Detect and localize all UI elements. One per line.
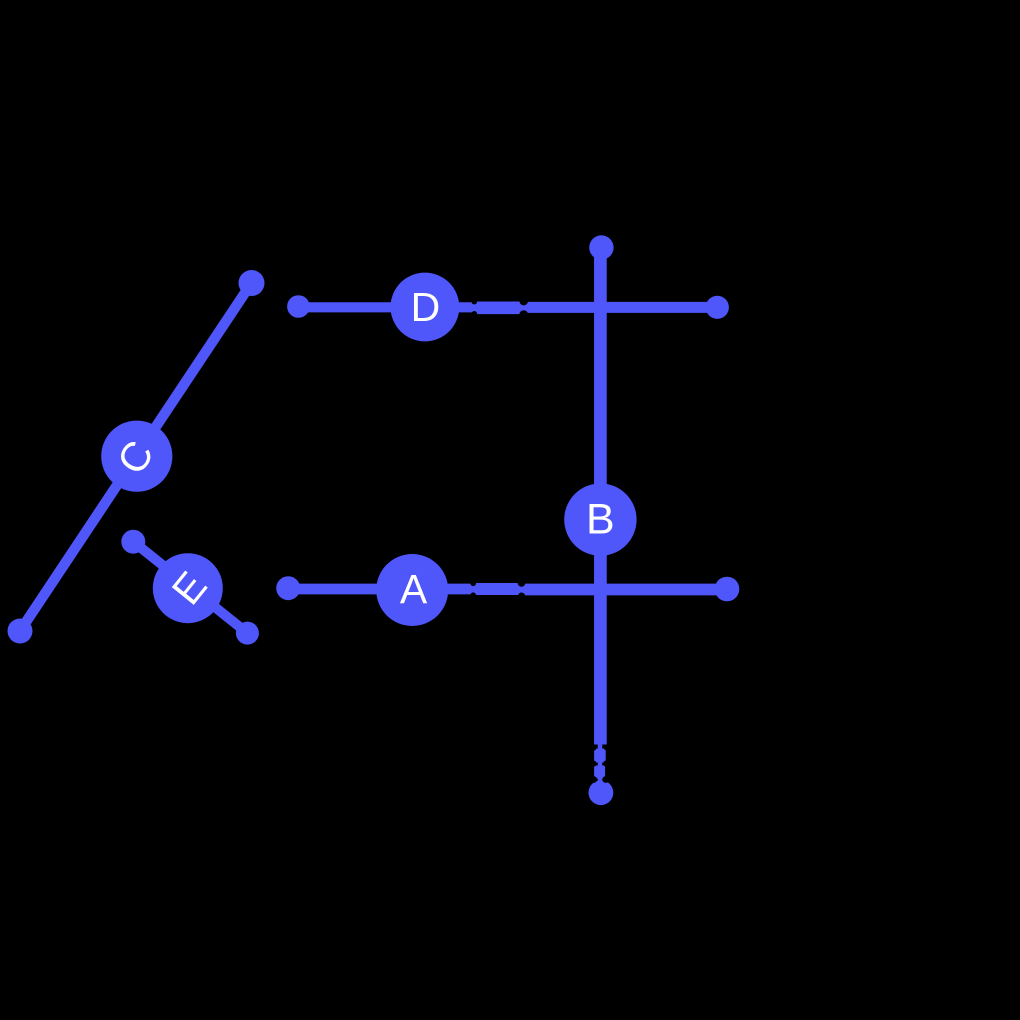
wire B bead 2 <box>594 766 605 779</box>
joint notch D2 <box>520 297 528 305</box>
svg-text:B: B <box>586 495 615 543</box>
joint notch B3 <box>590 776 597 783</box>
label circle D <box>391 273 460 342</box>
joint notch B1 <box>590 744 596 750</box>
svg-text:D: D <box>411 284 441 330</box>
wire E main segment <box>133 542 247 633</box>
wire A right segment <box>525 584 727 595</box>
wire B bead 1 <box>594 749 606 763</box>
road C <box>8 270 265 644</box>
wire B thin neck <box>598 744 603 782</box>
road B <box>564 235 636 805</box>
node D end dot <box>706 296 729 319</box>
wire D right segment <box>527 302 717 313</box>
wire D thick middle segment <box>474 301 522 314</box>
wire B main vertical segment <box>594 248 607 745</box>
label circle A <box>376 554 448 626</box>
node A start dot <box>276 576 300 600</box>
node E start dot <box>121 530 145 554</box>
node B bottom dot <box>589 780 614 805</box>
wire A thick middle segment <box>474 583 521 595</box>
joint notch A1 <box>470 581 476 587</box>
road A <box>276 554 739 626</box>
node D start dot <box>287 295 310 318</box>
label circle E <box>153 553 223 623</box>
label circle C <box>101 421 172 492</box>
wire C main segment <box>20 283 252 631</box>
node B top dot <box>589 235 613 259</box>
joint notch A2 <box>518 579 526 587</box>
joint notch D1 <box>472 299 478 305</box>
label circle B <box>564 483 636 555</box>
node C start dot <box>8 619 33 644</box>
road D <box>287 273 729 342</box>
joint notch B2 <box>590 760 596 766</box>
wire D base segment <box>298 302 717 312</box>
node E end dot <box>236 622 259 645</box>
wire A base segment <box>288 584 727 595</box>
svg-text:A: A <box>400 566 428 612</box>
node C end dot <box>239 270 265 296</box>
road E <box>121 530 259 645</box>
node A end dot <box>715 577 740 602</box>
